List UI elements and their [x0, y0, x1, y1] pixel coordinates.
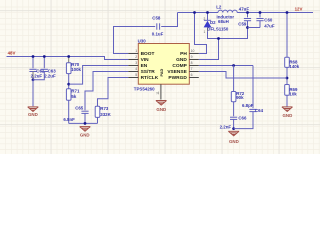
wire C58 to switch-node rail	[161, 13, 177, 27]
pin 1 BOOT	[128, 53, 138, 55]
svg-text:1: 1	[135, 49, 137, 53]
svg-text:7: 7	[191, 67, 193, 71]
svg-text:D2: D2	[210, 20, 216, 25]
svg-text:C58: C58	[152, 16, 161, 21]
svg-text:140k: 140k	[289, 64, 299, 69]
svg-text:11: 11	[156, 91, 160, 95]
pin 3 EN	[128, 65, 138, 67]
svg-text:C60: C60	[264, 18, 273, 23]
svg-text:100k: 100k	[71, 67, 81, 72]
svg-text:GND: GND	[156, 107, 166, 112]
svg-text:COMP: COMP	[172, 63, 187, 69]
wire BOOT to C58	[114, 27, 156, 54]
capacitor C63 2.2uF	[43, 57, 45, 69]
svg-text:PH: PH	[180, 51, 187, 57]
svg-text:6.8nF: 6.8nF	[63, 117, 75, 122]
svg-text:10k: 10k	[289, 92, 297, 97]
IC U30 TPS54260 body	[138, 44, 189, 85]
svg-text:2.2uF: 2.2uF	[44, 74, 56, 79]
svg-text:3: 3	[135, 61, 137, 65]
pin 5 RT/CLK	[128, 77, 138, 79]
wire R72 to C66	[233, 102, 235, 116]
ground under R69	[282, 106, 293, 108]
svg-text:SS/TR: SS/TR	[141, 69, 156, 75]
svg-text:C66: C66	[238, 116, 247, 121]
pin 7 VSENSE	[189, 71, 199, 73]
svg-text:332K: 332K	[100, 112, 111, 117]
ground under IC pad	[156, 100, 167, 102]
wire C66 to ground node	[233, 120, 235, 129]
wire diode anode to gnd bus	[208, 28, 248, 39]
pin 2 VIN	[128, 59, 138, 61]
svg-text:4: 4	[135, 67, 137, 71]
wire R68 to R69 feedback node	[286, 67, 288, 84]
capacitor C58	[156, 23, 158, 29]
wire 12V output rail	[237, 12, 313, 14]
svg-text:VIN: VIN	[141, 57, 150, 63]
svg-text:6: 6	[191, 73, 193, 77]
pin 8 COMP	[189, 65, 199, 67]
svg-text:VSENSE: VSENSE	[167, 69, 187, 75]
svg-text:10: 10	[191, 49, 195, 53]
svg-text:GND: GND	[176, 57, 187, 63]
svg-text:9: 9	[191, 55, 193, 59]
svg-text:L2: L2	[216, 4, 222, 9]
pin 9 GND	[189, 59, 199, 61]
capacitor C65 6.8nF	[81, 110, 88, 112]
svg-text:EN: EN	[141, 63, 148, 69]
wire input caps to ground	[32, 80, 34, 107]
svg-text:GND: GND	[229, 139, 239, 144]
diode D2 DFLS1150	[207, 13, 209, 21]
svg-text:R71: R71	[71, 89, 80, 94]
svg-text:47uF: 47uF	[264, 24, 275, 29]
svg-text:PWRGD: PWRGD	[168, 75, 187, 81]
wire R71 to ground bus	[68, 100, 70, 123]
resistor R69 10k	[285, 85, 290, 96]
inductor L2	[218, 10, 237, 12]
ground divider bus	[80, 126, 91, 128]
svg-text:6.8pF: 6.8pF	[242, 103, 254, 108]
ground comp network	[228, 130, 239, 132]
wire gnd bus to GND pin	[199, 39, 219, 60]
svg-text:U30: U30	[138, 38, 147, 43]
svg-text:2: 2	[204, 17, 206, 21]
wire SS/TR to C65	[85, 72, 128, 111]
ground input section	[28, 106, 39, 108]
wire R73 to ground bus	[97, 117, 99, 123]
svg-text:C64: C64	[255, 108, 264, 113]
svg-text:2.2uF: 2.2uF	[31, 74, 43, 79]
wire C64 to ground node	[234, 112, 253, 129]
capacitor C64 6.8pF branch	[252, 66, 254, 109]
svg-text:2: 2	[135, 55, 137, 59]
svg-text:C65: C65	[75, 106, 84, 111]
svg-text:C59: C59	[238, 21, 247, 26]
wire COMP line	[199, 65, 253, 67]
wire C65 to ground bus	[84, 113, 86, 123]
svg-text:12V: 12V	[295, 6, 303, 11]
wire switch node top rail	[178, 12, 219, 14]
svg-text:1: 1	[204, 30, 206, 34]
svg-text:RT/CLK: RT/CLK	[141, 75, 159, 81]
resistor R73 332K	[95, 106, 100, 117]
wire 12V to R68	[286, 13, 288, 58]
svg-text:0.1uF: 0.1uF	[152, 31, 164, 36]
svg-text:8: 8	[191, 61, 193, 65]
svg-text:TPS54260: TPS54260	[134, 87, 155, 92]
svg-text:DFLS1150: DFLS1150	[207, 26, 229, 31]
pin 11 PAD	[160, 84, 162, 99]
svg-text:BOOT: BOOT	[141, 51, 155, 57]
svg-text:5k: 5k	[71, 94, 76, 99]
resistor R68 140k	[285, 57, 290, 67]
svg-text:48V: 48V	[8, 51, 16, 56]
wire C59 bottom to C60 bottom	[248, 27, 261, 29]
resistor R72 90k	[231, 92, 236, 102]
resistor R70 100k	[68, 57, 70, 63]
wire PH pin to switch node	[195, 13, 207, 54]
pin 4 SS/TR	[128, 71, 138, 73]
node 48V input rail wire	[7, 57, 129, 60]
wire VSENSE to feedback divider	[199, 72, 287, 79]
svg-text:GND: GND	[28, 112, 38, 117]
wire R70 to R71 junction	[68, 74, 70, 89]
svg-text:PAD: PAD	[160, 69, 164, 77]
pin 10 PH	[189, 53, 199, 55]
svg-text:R73: R73	[100, 106, 109, 111]
capacitor C61 2.2uF	[32, 57, 34, 69]
svg-text:GND: GND	[80, 132, 90, 137]
wire ground bus under divider	[69, 122, 98, 124]
svg-text:GND: GND	[283, 113, 293, 118]
svg-text:68uH: 68uH	[218, 19, 229, 24]
svg-text:2.2nF: 2.2nF	[220, 125, 232, 130]
wire R69 to ground	[286, 95, 288, 106]
svg-text:90k: 90k	[236, 95, 244, 100]
wire COMP to R72	[233, 66, 235, 92]
pin 6 PWRGD	[189, 77, 199, 79]
capacitor C60 47uF	[259, 13, 261, 18]
wire EN divider tap	[69, 66, 129, 85]
svg-text:5: 5	[135, 73, 137, 77]
capacitor C66 2.2nF	[230, 116, 237, 118]
svg-text:47uF: 47uF	[239, 6, 250, 11]
capacitor C59 47uF	[247, 13, 249, 18]
resistor R71 5k	[66, 89, 71, 100]
wire RT/CLK to R73	[98, 78, 129, 107]
